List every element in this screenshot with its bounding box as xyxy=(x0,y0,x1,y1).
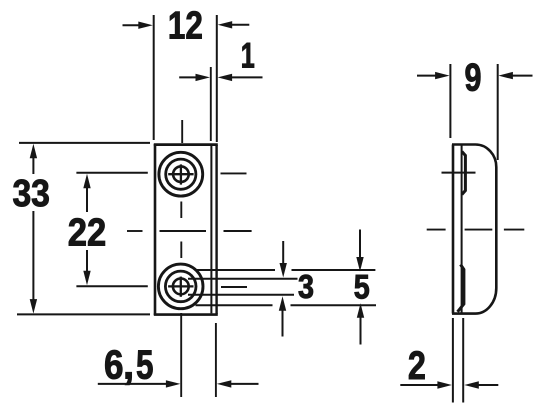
dim 33 dimension line lower part xyxy=(32,211,34,307)
dim 9 right arrow xyxy=(505,75,533,77)
svg-text:33: 33 xyxy=(12,173,50,215)
svg-text:3: 3 xyxy=(298,268,314,305)
dim 3 bottom arrow xyxy=(282,309,284,337)
bottom hole middle circle xyxy=(165,271,196,302)
dim 22 bottom arrowhead xyxy=(83,271,90,286)
dim 33 dimension line upper part xyxy=(32,150,34,174)
top hole cross vertical xyxy=(180,164,182,184)
dim 2 left arrow xyxy=(400,384,445,386)
dim 2 right extension line xyxy=(462,318,464,403)
dim 1 left arrow xyxy=(179,76,203,78)
dim 22 top extension line xyxy=(76,172,147,174)
vertical center line between holes, lower segment xyxy=(180,242,182,259)
dim 6,5 right extension line xyxy=(215,323,217,397)
dim 6,5 right arrow xyxy=(223,383,259,385)
dim 12 left extension line xyxy=(153,15,155,140)
svg-text:5: 5 xyxy=(136,341,154,387)
top hole cross horizontal xyxy=(168,173,193,175)
bottom hole inner circle xyxy=(173,279,189,295)
dim 3/5 bottom tangent line (5 lower) xyxy=(196,304,273,306)
vertical center line between holes, upper segment xyxy=(180,202,182,219)
bottom hole center tick right of plate xyxy=(221,286,247,288)
svg-text:6: 6 xyxy=(104,341,124,387)
dim 22 dimension line upper part xyxy=(86,180,88,212)
svg-text:1: 1 xyxy=(241,37,255,76)
top hole inner circle xyxy=(173,166,189,182)
side view: back line xyxy=(452,145,455,314)
dim 5 bottom arrow xyxy=(360,315,362,345)
svg-text:,: , xyxy=(123,341,134,387)
dim 5 top arrow xyxy=(359,230,361,261)
plate front view: right edge inner lip line xyxy=(210,146,212,314)
dim 6,5 left arrow xyxy=(98,383,174,385)
dim 33 bottom arrowhead xyxy=(30,299,37,314)
top hole outer circle xyxy=(159,152,203,196)
bottom hole cross horizontal xyxy=(168,285,193,287)
top hole middle circle xyxy=(166,159,196,189)
dim 22 bottom extension line xyxy=(76,285,147,287)
dim 22 dimension line lower part xyxy=(86,250,88,279)
bottom hole outer circle xyxy=(158,264,203,309)
dim 3 upper tangent line xyxy=(188,278,298,280)
dim 1 right arrow xyxy=(224,76,263,78)
front view horizontal chain line, right dash xyxy=(224,230,252,232)
svg-text:9: 9 xyxy=(465,57,482,100)
dim 12 right arrow xyxy=(224,24,249,26)
side view: horizontal center chain line xyxy=(427,229,446,231)
dim 3 top arrow xyxy=(282,241,284,266)
plate front view: top edge xyxy=(154,143,218,146)
dim 3 lower tangent line xyxy=(188,294,294,296)
dim 2 left extension line xyxy=(452,318,454,403)
side view: outline top edge and corner xyxy=(452,145,496,314)
plate front view: bottom edge xyxy=(154,313,218,316)
svg-text:12: 12 xyxy=(168,4,203,47)
vertical center line below bottom hole / 6,5 extension xyxy=(180,313,182,397)
front view horizontal chain line, middle dash xyxy=(160,230,207,232)
plate front view: right edge outer line xyxy=(215,145,217,314)
dim 9 left arrow xyxy=(417,75,443,77)
dim 22 top arrowhead xyxy=(83,174,90,189)
svg-text:5: 5 xyxy=(354,268,370,306)
dim 12 left arrow xyxy=(123,24,147,26)
dim 33 bottom extension line xyxy=(17,313,150,315)
dim 12 right extension line xyxy=(216,15,218,142)
front view horizontal chain line, left dash xyxy=(127,230,143,232)
side view: top countersink notch xyxy=(462,152,466,195)
dim 9 left extension line xyxy=(449,64,451,138)
plate front view: left edge xyxy=(154,144,157,315)
dim 3/5 top tangent line (5 upper) xyxy=(197,269,276,271)
bottom hole cross vertical xyxy=(180,277,182,297)
side view: front face line xyxy=(461,145,463,313)
dim 33 top arrowhead xyxy=(30,144,37,159)
vertical center line above plate xyxy=(181,120,183,143)
svg-text:2: 2 xyxy=(408,344,426,388)
dim 9 right extension line xyxy=(497,64,499,160)
dim 1 left extension line xyxy=(210,67,212,141)
dim 2 right arrow xyxy=(471,384,499,386)
svg-text:22: 22 xyxy=(68,212,107,255)
top hole center tick right of plate xyxy=(221,172,247,174)
side view: bottom countersink notch xyxy=(458,265,464,312)
side view: top hole center tick xyxy=(442,172,476,174)
dim 33 top extension line xyxy=(19,142,150,144)
